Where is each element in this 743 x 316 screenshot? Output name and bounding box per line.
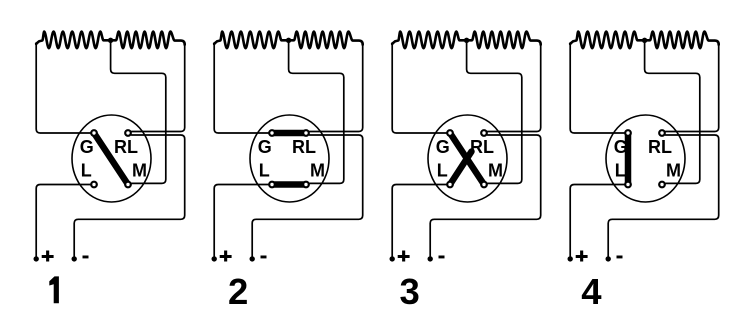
svg-text:2: 2 [228,271,248,312]
svg-text:4: 4 [581,271,602,312]
svg-text:3: 3 [399,271,419,312]
